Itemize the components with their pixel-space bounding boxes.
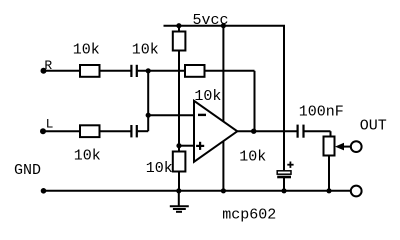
svg-text:10k: 10k [239,148,266,165]
svg-text:10k: 10k [73,42,100,59]
node output junction [251,129,256,134]
wire feedback resistor right lead [204,70,255,72]
wire ground stub [178,191,180,206]
node R summing junction [146,68,151,73]
capacitor output 100nF [298,125,304,138]
wire R resistor to cap [100,70,131,72]
potentiometer 10k [324,137,345,156]
svg-text:OUT: OUT [360,118,387,135]
svg-text:100nF: 100nF [299,104,344,121]
svg-text:GND: GND [14,162,41,179]
node 5vcc rail junction 1 [176,23,181,28]
wire op-amp output [237,130,296,132]
node inverting input junction [146,113,151,118]
svg-text:10k: 10k [146,160,173,177]
resistor R series 10k [80,65,100,77]
svg-text:10k: 10k [194,88,221,105]
node ground rail junction bias [176,188,181,193]
capacitor electrolytic decoupling [277,162,293,178]
node L input terminal [40,128,46,134]
wire L resistor to cap [100,130,131,132]
wire decoupling cap bottom lead [283,178,285,191]
node ground rail junction supply [221,188,226,193]
wire ground rail [44,190,351,192]
wire inverting input [148,114,194,116]
wire R cap to summing node [138,70,185,72]
node GND terminal [41,188,47,194]
wire non-inverting input [179,145,194,147]
resistor bias lower 10k [173,152,186,172]
svg-text:5vcc: 5vcc [193,12,229,29]
ground [170,206,189,212]
resistor bias upper 10k [173,32,186,51]
resistor L series 10k [80,125,100,137]
resistor feedback 10k [185,65,205,77]
svg-text:10k: 10k [74,148,101,165]
node OUT terminal upper [351,141,362,152]
wire wiper to out terminal [340,146,351,148]
wire L cap to summing vertical [138,130,149,132]
wire vcc drop to op-amp supply [222,26,224,191]
wire bias divider vertical [178,26,180,32]
svg-text:L: L [46,116,54,131]
wire feedback drop to output [254,71,256,131]
wire vcc drop to decoupling cap [283,26,285,171]
svg-text:mcp602: mcp602 [222,207,276,224]
node 5vcc rail junction 2 [221,23,226,28]
capacitor R input [131,65,136,77]
node ground rail junction cap [281,188,286,193]
wire R input lead [44,70,81,72]
node R input terminal [41,68,47,74]
node ground rail junction pot [326,188,331,193]
capacitor L input [131,125,136,137]
op-amp U1 mcp602 [194,101,237,162]
wire pot bottom lead [328,156,330,191]
wire L input lead [43,130,80,132]
svg-text:10k: 10k [132,42,159,59]
wire top 5vcc rail [164,25,286,27]
node bias junction [176,143,181,148]
svg-text:R: R [44,58,52,73]
wire output cap to pot [304,130,330,132]
wire summing node vertical [147,71,149,131]
node OUT terminal lower [351,186,362,197]
